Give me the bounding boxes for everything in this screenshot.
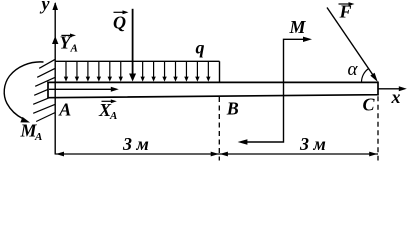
dashed line at B bbox=[218, 97, 220, 161]
distributed load right edge bbox=[219, 61, 221, 82]
y axis / wall line bbox=[54, 3, 56, 155]
svg-text:α: α bbox=[348, 59, 359, 80]
svg-text:M: M bbox=[289, 17, 307, 37]
svg-text:q: q bbox=[196, 38, 205, 58]
dim arrowhead left of B bbox=[211, 152, 219, 157]
reaction Y_A arrowhead bbox=[52, 36, 58, 44]
y-axis arrowhead bbox=[52, 2, 58, 10]
svg-text:x: x bbox=[391, 87, 401, 107]
dashed line at C bbox=[377, 96, 379, 160]
svg-text:Q: Q bbox=[113, 13, 126, 33]
moment M crank (couple) bbox=[247, 39, 309, 142]
svg-text:y: y bbox=[40, 0, 51, 14]
x axis bbox=[378, 88, 404, 90]
angle alpha arc bbox=[361, 69, 368, 83]
svg-text:A: A bbox=[109, 110, 117, 122]
distributed load q : top line bbox=[55, 60, 219, 62]
moment reaction arc M_A bbox=[4, 62, 43, 119]
F arrowhead bbox=[370, 73, 378, 82]
wall hatching bbox=[33, 59, 55, 121]
force Q arrow bbox=[132, 9, 134, 76]
reaction X_A arrow bbox=[49, 88, 114, 90]
M top arrowhead bbox=[303, 37, 312, 42]
dim arrowhead at A bbox=[56, 152, 64, 157]
svg-text:3 м: 3 м bbox=[122, 134, 149, 154]
svg-text:3 м: 3 м bbox=[299, 134, 326, 154]
force F line bbox=[327, 8, 375, 79]
dimension line bbox=[55, 153, 378, 155]
dim arrowhead right of B bbox=[220, 152, 228, 157]
distributed load arrows bbox=[66, 61, 208, 78]
svg-text:A: A bbox=[58, 100, 71, 120]
svg-text:B: B bbox=[226, 99, 239, 119]
M_A arc arrowhead bbox=[20, 117, 30, 123]
M bottom arrowhead bbox=[238, 139, 248, 144]
svg-text:A: A bbox=[34, 131, 42, 143]
svg-text:C: C bbox=[363, 95, 376, 115]
beam AC (white filled bar) bbox=[48, 82, 378, 97]
dim arrowhead at C bbox=[369, 152, 377, 157]
svg-text:A: A bbox=[70, 43, 78, 55]
